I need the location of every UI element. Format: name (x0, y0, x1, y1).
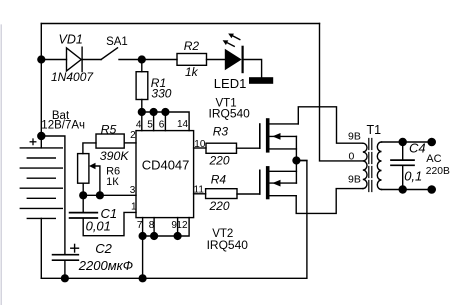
wire VT2 drain to transformer (296, 189, 363, 214)
C2 plus sign (71, 244, 79, 252)
node pin7 (139, 232, 147, 240)
LED LED1 (223, 34, 243, 73)
node ground drop (139, 274, 147, 282)
resistor R4 (194, 189, 260, 199)
wire pin4 stub (141, 112, 143, 131)
svg-text:1: 1 (131, 201, 137, 212)
wire R2 to LED (207, 59, 225, 61)
wire battery to C2 (41, 136, 65, 254)
wire diode to switch (82, 59, 101, 61)
svg-text:220: 220 (209, 154, 230, 168)
node C4 bottom (399, 185, 407, 193)
edge artifact (0, 25, 2, 305)
node R1/R2 junction (138, 55, 146, 63)
svg-text:220: 220 (209, 199, 230, 213)
svg-text:4: 4 (136, 119, 142, 130)
node C1 R6 (79, 191, 87, 199)
wire source node to ground riser (296, 160, 307, 162)
wire pin7 stub (142, 218, 144, 236)
svg-text:2: 2 (130, 130, 136, 141)
node VD1 battery junction (37, 55, 45, 63)
wire switch to node (119, 59, 177, 61)
svg-text:CD4047: CD4047 (142, 158, 190, 173)
transistor Q2 VT2 (260, 166, 297, 199)
svg-text:14: 14 (177, 119, 189, 130)
wire main feed left (41, 59, 66, 61)
wire common source vertical (295, 136, 297, 183)
svg-text:LED1: LED1 (214, 76, 247, 91)
resistor R1 (136, 60, 148, 113)
svg-text:R5: R5 (101, 122, 117, 136)
diode VD1 (67, 47, 83, 71)
node output terminal top (427, 138, 436, 147)
svg-text:IRQ540: IRQ540 (207, 238, 249, 252)
capacitor C1 (70, 195, 136, 235)
node pin6 (161, 108, 169, 116)
wire center-tap riser (320, 24, 363, 161)
svg-text:12: 12 (176, 220, 188, 231)
wire bottom bus (41, 161, 307, 279)
svg-text:12В/7Ач: 12В/7Ач (41, 119, 85, 131)
node pin5 (150, 108, 158, 116)
svg-text:R2: R2 (184, 39, 200, 53)
svg-text:3: 3 (130, 185, 136, 196)
svg-text:AC: AC (426, 153, 441, 165)
capacitor C4 (391, 142, 414, 190)
wire top rail (41, 23, 319, 25)
svg-text:1N4007: 1N4007 (51, 70, 94, 84)
svg-text:T1: T1 (367, 123, 382, 137)
wire pin3 line (83, 194, 136, 196)
wire pin6 stub (164, 112, 166, 131)
svg-text:0,1: 0,1 (404, 168, 422, 183)
svg-text:10: 10 (194, 139, 206, 150)
node pin4 (138, 108, 146, 116)
svg-text:R4: R4 (211, 172, 227, 186)
resistor R2 (177, 54, 207, 66)
resistor R3 (194, 143, 260, 153)
node wiper (96, 191, 104, 199)
capacitor C2 (53, 255, 79, 279)
switch SA1 (101, 48, 117, 60)
transformer T1 primary (363, 143, 367, 188)
node pin9 (174, 232, 182, 240)
svg-text:9В: 9В (348, 174, 361, 186)
battery Bat (20, 136, 62, 278)
wire pin9 stub (177, 218, 179, 236)
svg-text:C2: C2 (95, 241, 112, 256)
svg-text:1k: 1k (185, 65, 199, 79)
op-amp U1 CD4047 body (136, 131, 194, 218)
node common source (292, 156, 300, 164)
wire ground drop (142, 236, 144, 278)
svg-text:220В: 220В (426, 166, 450, 177)
svg-text:1К: 1К (106, 176, 119, 188)
node C2 ground (61, 274, 69, 282)
svg-text:2200мкФ: 2200мкФ (78, 258, 133, 273)
svg-text:R3: R3 (213, 124, 229, 138)
wire supply rail to IC pins (142, 112, 189, 131)
svg-text:VD1: VD1 (59, 33, 83, 47)
svg-text:8: 8 (149, 220, 155, 231)
svg-text:0: 0 (349, 151, 355, 163)
svg-text:C4: C4 (409, 141, 426, 156)
wire LED to ground bar (244, 60, 262, 78)
resistor R5 (83, 134, 136, 154)
wire secondary top (382, 141, 432, 143)
svg-text:11: 11 (194, 184, 205, 195)
resistor R6 trimmer (78, 154, 100, 196)
wire secondary bottom (382, 189, 432, 191)
svg-text:SA1: SA1 (106, 36, 128, 48)
ground bar (249, 77, 273, 84)
wire VT1 drain to transformer (298, 107, 363, 143)
svg-text:330: 330 (151, 87, 171, 101)
transformer T1 secondary (377, 142, 381, 190)
node battery plus (37, 132, 45, 140)
transistor Q1 VT1 (260, 118, 299, 152)
battery plus sign (30, 139, 36, 145)
wire pin5 stub (153, 112, 155, 131)
wire left border upper (40, 24, 42, 137)
node C4 top (399, 138, 407, 146)
transformer T1 core (369, 139, 372, 192)
svg-text:7: 7 (137, 220, 143, 231)
wire bottom pin bus (143, 218, 190, 236)
svg-text:0,01: 0,01 (86, 219, 111, 234)
svg-text:IRQ540: IRQ540 (209, 106, 251, 120)
svg-text:9В: 9В (348, 130, 361, 142)
node pin8 (150, 232, 158, 240)
svg-text:5: 5 (147, 119, 153, 130)
wire pin8 stub (153, 218, 155, 236)
svg-text:390K: 390K (100, 149, 130, 163)
svg-text:6: 6 (159, 119, 165, 130)
node output terminal bottom (427, 185, 436, 194)
